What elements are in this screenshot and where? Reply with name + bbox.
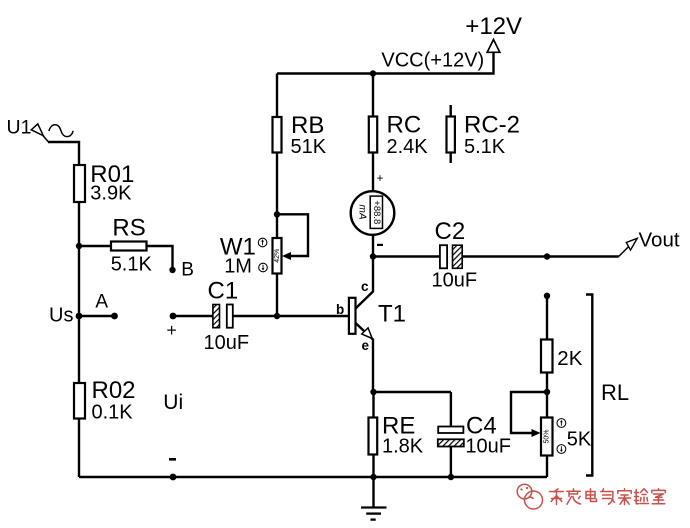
svg-text:B: B [181,260,194,281]
svg-text:U1: U1 [7,117,32,139]
svg-text:VCC(+12V): VCC(+12V) [381,50,484,72]
svg-text:R02: R02 [92,377,136,404]
svg-text:50%: 50% [544,429,551,443]
svg-text:10uF: 10uF [432,270,478,292]
svg-text:3.9K: 3.9K [90,183,132,205]
svg-text:+: + [167,320,177,340]
svg-text:51K: 51K [291,136,327,158]
svg-text:+12V: +12V [465,13,522,40]
svg-text:+88.8: +88.8 [371,200,382,224]
svg-text:5.1K: 5.1K [111,253,153,275]
svg-text:A: A [95,292,108,313]
svg-text:5.1K: 5.1K [464,136,506,158]
svg-text:1M: 1M [224,256,252,278]
svg-text:10uF: 10uF [465,436,511,458]
svg-text:2.4K: 2.4K [387,136,429,158]
svg-text:5K: 5K [567,429,592,451]
svg-text:2K: 2K [557,347,582,370]
svg-text:C1: C1 [208,278,239,305]
svg-text:10uF: 10uF [204,332,250,354]
svg-text:Ui: Ui [163,391,183,414]
svg-text:RL: RL [601,380,629,405]
svg-text:c: c [361,279,369,294]
svg-text:e: e [362,338,370,353]
svg-text:RS: RS [112,214,145,241]
svg-text:mA: mA [356,205,367,220]
svg-text:1.8K: 1.8K [382,436,424,458]
svg-text:Vout: Vout [639,229,680,252]
svg-text:0.1K: 0.1K [92,402,134,424]
svg-text:C2: C2 [435,218,466,245]
svg-text:+: + [377,173,384,185]
svg-text:Us: Us [49,305,73,327]
svg-text:42%: 42% [274,249,281,263]
svg-text:T1: T1 [378,301,406,328]
svg-text:b: b [336,302,344,317]
svg-text:RC-2: RC-2 [464,112,520,139]
svg-text:RC: RC [387,112,422,139]
